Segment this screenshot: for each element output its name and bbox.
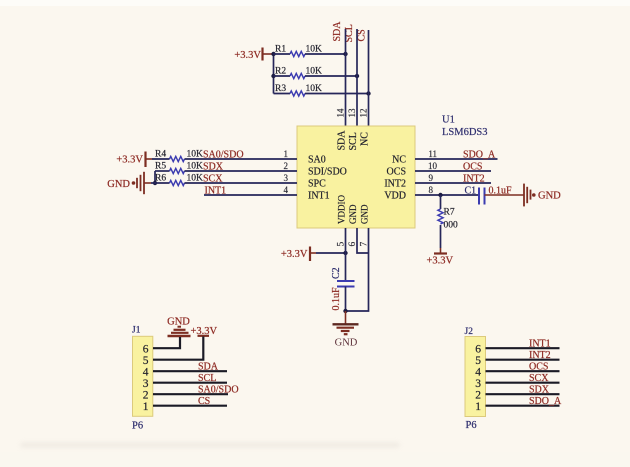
wire J1 pin 3 — [153, 382, 227, 384]
connector J2 — [465, 327, 486, 417]
svg-text:6: 6 — [143, 344, 149, 356]
svg-text:INT2: INT2 — [463, 174, 485, 185]
wire R4 to pin 1 — [185, 158, 298, 160]
wire J1 pin 1 — [153, 405, 227, 407]
svg-text:+3.3V: +3.3V — [281, 249, 308, 260]
svg-text:+3.3V: +3.3V — [234, 50, 261, 61]
svg-text:+3.3V: +3.3V — [116, 155, 143, 166]
svg-text:10K: 10K — [306, 84, 323, 94]
svg-text:CS: CS — [198, 396, 210, 407]
svg-text:SDO_A: SDO_A — [463, 150, 496, 161]
svg-text:4: 4 — [143, 367, 149, 379]
svg-text:GND: GND — [107, 179, 130, 190]
svg-text:10K: 10K — [187, 174, 204, 184]
svg-text:SCL: SCL — [348, 132, 359, 150]
svg-text:9: 9 — [429, 173, 434, 183]
wire C1 to GND — [485, 194, 525, 196]
svg-text:6: 6 — [475, 344, 481, 356]
svg-text:1: 1 — [284, 149, 289, 159]
power terminal +3.3V left — [116, 152, 152, 168]
wire pin 6 down — [357, 228, 369, 253]
ground GND above J1 — [167, 317, 190, 337]
svg-text:R7: R7 — [444, 208, 455, 218]
wire J2 pin 1 — [486, 405, 560, 407]
node junction rail-R1 — [271, 52, 275, 56]
resistor R7 — [438, 195, 458, 231]
wire CS vertical — [368, 30, 370, 126]
svg-text:OCS: OCS — [387, 167, 406, 178]
power terminal +3.3V top-left — [234, 48, 273, 62]
resistor R4 — [152, 150, 203, 162]
svg-text:INT1: INT1 — [308, 191, 330, 202]
svg-text:000: 000 — [444, 221, 459, 231]
svg-text:3: 3 — [143, 378, 149, 390]
svg-text:5: 5 — [143, 355, 149, 367]
resistor R2 — [274, 67, 323, 79]
node junction R5/R6 — [153, 181, 157, 185]
svg-text:R6: R6 — [155, 174, 166, 184]
svg-text:GND: GND — [335, 337, 358, 348]
wire R5 to pin 2 — [185, 170, 298, 172]
wire J1 pin 5 to +3.3V — [153, 337, 203, 360]
capacitor C1 — [465, 186, 513, 205]
svg-text:5: 5 — [475, 355, 481, 367]
resistor R5 — [155, 162, 203, 174]
svg-text:11: 11 — [428, 149, 437, 159]
svg-text:R5: R5 — [155, 162, 166, 172]
svg-text:SCL: SCL — [198, 373, 216, 384]
svg-text:SDO_A: SDO_A — [529, 396, 562, 407]
svg-text:10K: 10K — [306, 45, 323, 55]
svg-text:OCS: OCS — [529, 362, 548, 373]
svg-text:SA0/SDO: SA0/SDO — [198, 385, 239, 396]
resistor R1 — [274, 45, 323, 57]
ground GND bottom-center — [333, 311, 359, 348]
power terminal +3.3V above J1 — [191, 326, 218, 337]
svg-text:VDDIO: VDDIO — [337, 195, 347, 224]
svg-text:GND: GND — [538, 191, 561, 202]
ground GND right — [524, 184, 561, 207]
svg-text:SDI/SDO: SDI/SDO — [308, 167, 347, 178]
svg-text:C2: C2 — [331, 267, 342, 279]
svg-text:J2: J2 — [465, 327, 474, 337]
svg-text:14: 14 — [336, 108, 346, 118]
node junction CS — [366, 91, 370, 95]
svg-text:P6: P6 — [132, 421, 143, 432]
node junction SCL — [355, 74, 359, 78]
svg-text:R3: R3 — [275, 84, 286, 94]
wire pin 5 down — [345, 228, 347, 281]
svg-text:INT1: INT1 — [529, 339, 551, 350]
svg-text:SCX: SCX — [529, 373, 549, 384]
wire J2 pin 3 — [486, 382, 560, 384]
ground GND left — [107, 172, 151, 194]
svg-text:2: 2 — [284, 161, 289, 171]
connector J1 — [132, 326, 153, 417]
svg-text:SDA: SDA — [337, 130, 348, 151]
svg-text:GND: GND — [360, 204, 370, 224]
svg-text:10K: 10K — [187, 150, 204, 160]
svg-text:5: 5 — [337, 242, 347, 247]
svg-text:2: 2 — [143, 390, 149, 402]
svg-text:0.1uF: 0.1uF — [331, 287, 342, 311]
svg-text:CS: CS — [357, 29, 368, 41]
svg-text:3: 3 — [284, 173, 289, 183]
svg-text:10: 10 — [428, 161, 438, 171]
svg-text:3: 3 — [475, 378, 481, 390]
wire J2 pin 6 — [486, 347, 560, 349]
svg-text:VDD: VDD — [384, 191, 406, 202]
svg-text:U1: U1 — [442, 115, 455, 126]
svg-text:+3.3V: +3.3V — [427, 256, 454, 267]
svg-text:SPC: SPC — [308, 179, 326, 190]
svg-text:C1: C1 — [465, 186, 477, 197]
wire pin 8 to C1 — [415, 194, 479, 196]
wire J2 pin 2 — [486, 393, 560, 395]
svg-text:LSM6DS3: LSM6DS3 — [442, 127, 488, 138]
wire J2 pin 5 — [486, 359, 560, 361]
svg-text:SDA: SDA — [198, 362, 219, 373]
node junction SDA — [343, 52, 347, 56]
wire J2 pin 4 — [486, 370, 560, 372]
svg-text:10K: 10K — [187, 162, 204, 172]
svg-text:R2: R2 — [275, 67, 286, 77]
svg-text:NC: NC — [360, 132, 371, 146]
resistor R6 — [151, 174, 203, 186]
wire J1 pin 2 — [153, 393, 228, 395]
svg-text:SDA: SDA — [332, 21, 343, 42]
wire C2 to ground junction — [345, 287, 347, 312]
wire R1 to SDA net — [305, 53, 346, 55]
op-amp U1 LSM6DS3 body — [297, 126, 415, 228]
wire R2 to SCL net — [305, 75, 357, 77]
svg-text:NC: NC — [392, 155, 406, 166]
svg-text:INT2: INT2 — [384, 179, 406, 190]
wire pin 11 SDO_A — [415, 158, 498, 160]
svg-text:SA0: SA0 — [308, 155, 326, 166]
node junction VDD/R7 — [438, 193, 442, 197]
wire J1 pin 6 to GND — [153, 337, 180, 348]
wire J1 pin 4 — [153, 370, 227, 372]
node junction VDDIO — [343, 251, 347, 255]
svg-text:13: 13 — [347, 108, 357, 118]
svg-text:OCS: OCS — [463, 162, 482, 173]
svg-text:GND: GND — [348, 204, 358, 224]
svg-text:1: 1 — [143, 401, 149, 413]
svg-text:10K: 10K — [306, 67, 323, 77]
wire SCL vertical — [356, 29, 358, 126]
wire R6 to pin 3 — [185, 182, 298, 184]
svg-text:4: 4 — [284, 185, 289, 195]
resistor R3 — [274, 84, 323, 96]
svg-text:R4: R4 — [155, 150, 166, 160]
svg-text:J1: J1 — [132, 326, 141, 336]
wire +3.3V to pin 5 — [316, 252, 346, 254]
svg-text:1: 1 — [475, 401, 481, 413]
svg-text:R1: R1 — [275, 45, 286, 55]
svg-text:2: 2 — [475, 390, 481, 402]
wire INT1 to pin 4 — [204, 194, 297, 196]
wire SDA vertical — [345, 29, 347, 126]
wire R7 to +3.3V — [440, 225, 442, 248]
wire pin 9 INT2 — [415, 182, 491, 184]
node junction C2/GND — [343, 309, 347, 313]
wire vertical rail from +3.3V — [273, 54, 275, 94]
svg-text:4: 4 — [475, 367, 481, 379]
svg-text:P6: P6 — [466, 420, 477, 431]
svg-text:12: 12 — [359, 109, 369, 118]
power terminal +3.3V below R7 — [427, 248, 454, 267]
svg-text:INT2: INT2 — [529, 350, 551, 361]
capacitor C2 — [331, 267, 355, 310]
power terminal +3.3V bottom-left of U1 — [281, 247, 316, 262]
node junction rail-R2 — [271, 74, 275, 78]
wire pin 10 OCS — [415, 170, 491, 172]
wire R5 left connector — [154, 171, 156, 183]
wire pin 7 down — [346, 228, 369, 311]
svg-text:8: 8 — [429, 185, 434, 195]
wire R3 to CS net — [305, 93, 369, 95]
svg-text:SDX: SDX — [529, 385, 550, 396]
